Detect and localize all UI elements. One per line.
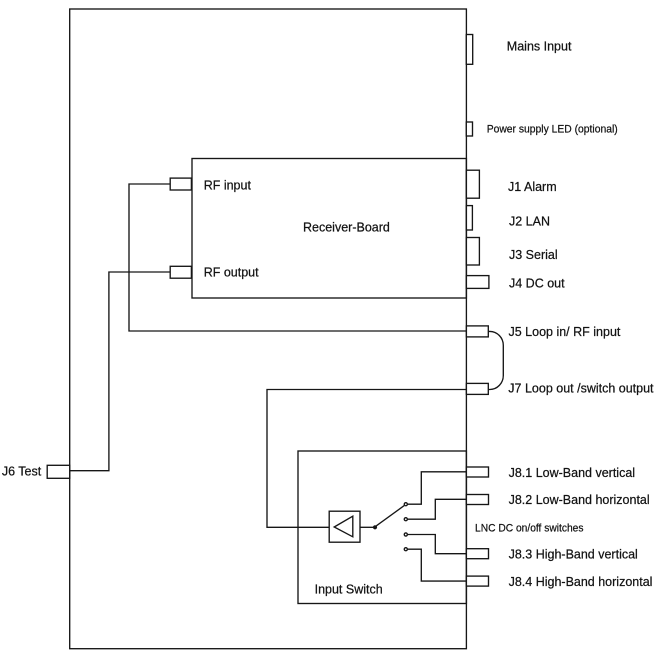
svg-text:J7 Loop out /switch output: J7 Loop out /switch output bbox=[508, 382, 654, 396]
svg-text:Power supply LED (optional): Power supply LED (optional) bbox=[487, 123, 618, 135]
svg-text:J6 Test: J6 Test bbox=[2, 464, 42, 478]
svg-text:Mains Input: Mains Input bbox=[507, 40, 572, 54]
svg-text:Input Switch: Input Switch bbox=[315, 583, 383, 597]
svg-text:J3 Serial: J3 Serial bbox=[509, 248, 558, 262]
svg-text:J8.2 Low-Band horizontal: J8.2 Low-Band horizontal bbox=[509, 493, 650, 507]
svg-text:J5 Loop in/ RF input: J5 Loop in/ RF input bbox=[509, 325, 621, 339]
svg-text:RF input: RF input bbox=[204, 178, 252, 192]
svg-text:Receiver-Board: Receiver-Board bbox=[303, 221, 390, 235]
svg-text:J2 LAN: J2 LAN bbox=[509, 215, 550, 229]
svg-text:LNC DC on/off switches: LNC DC on/off switches bbox=[475, 523, 584, 535]
svg-text:J4 DC out: J4 DC out bbox=[509, 277, 565, 291]
svg-text:RF output: RF output bbox=[204, 266, 259, 280]
svg-text:J8.4 High-Band horizontal: J8.4 High-Band horizontal bbox=[509, 575, 653, 589]
svg-text:J8.3 High-Band vertical: J8.3 High-Band vertical bbox=[509, 548, 638, 562]
svg-text:J1 Alarm: J1 Alarm bbox=[508, 180, 557, 194]
svg-text:J8.1 Low-Band vertical: J8.1 Low-Band vertical bbox=[509, 466, 635, 480]
